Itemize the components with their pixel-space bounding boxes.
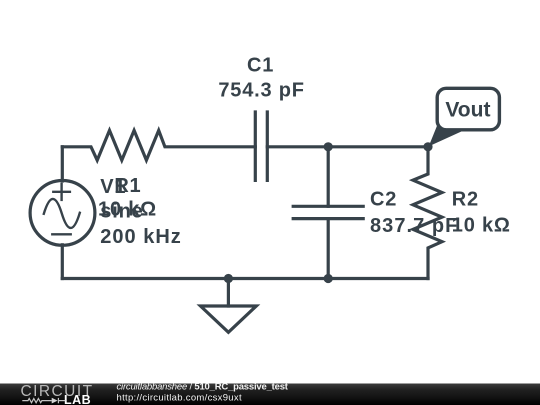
svg-text:R2: R2 [452,188,479,210]
svg-text:R1: R1 [114,175,141,197]
svg-text:837.7 pF: 837.7 pF [370,215,458,237]
svg-text:Vout: Vout [445,98,490,121]
svg-text:200 kHz: 200 kHz [100,226,182,248]
svg-text:C2: C2 [370,188,397,210]
svg-text:http://circuitlab.com/csx9uxt: http://circuitlab.com/csx9uxt [117,393,242,404]
svg-text:10 kΩ: 10 kΩ [98,199,157,221]
svg-text:circuitlabbanshee / 510_RC_pas: circuitlabbanshee / 510_RC_passive_test [117,382,289,393]
svg-text:754.3 pF: 754.3 pF [218,80,304,102]
svg-text:LAB: LAB [64,393,91,405]
svg-text:10 kΩ: 10 kΩ [452,215,511,237]
svg-text:C1: C1 [247,54,274,76]
